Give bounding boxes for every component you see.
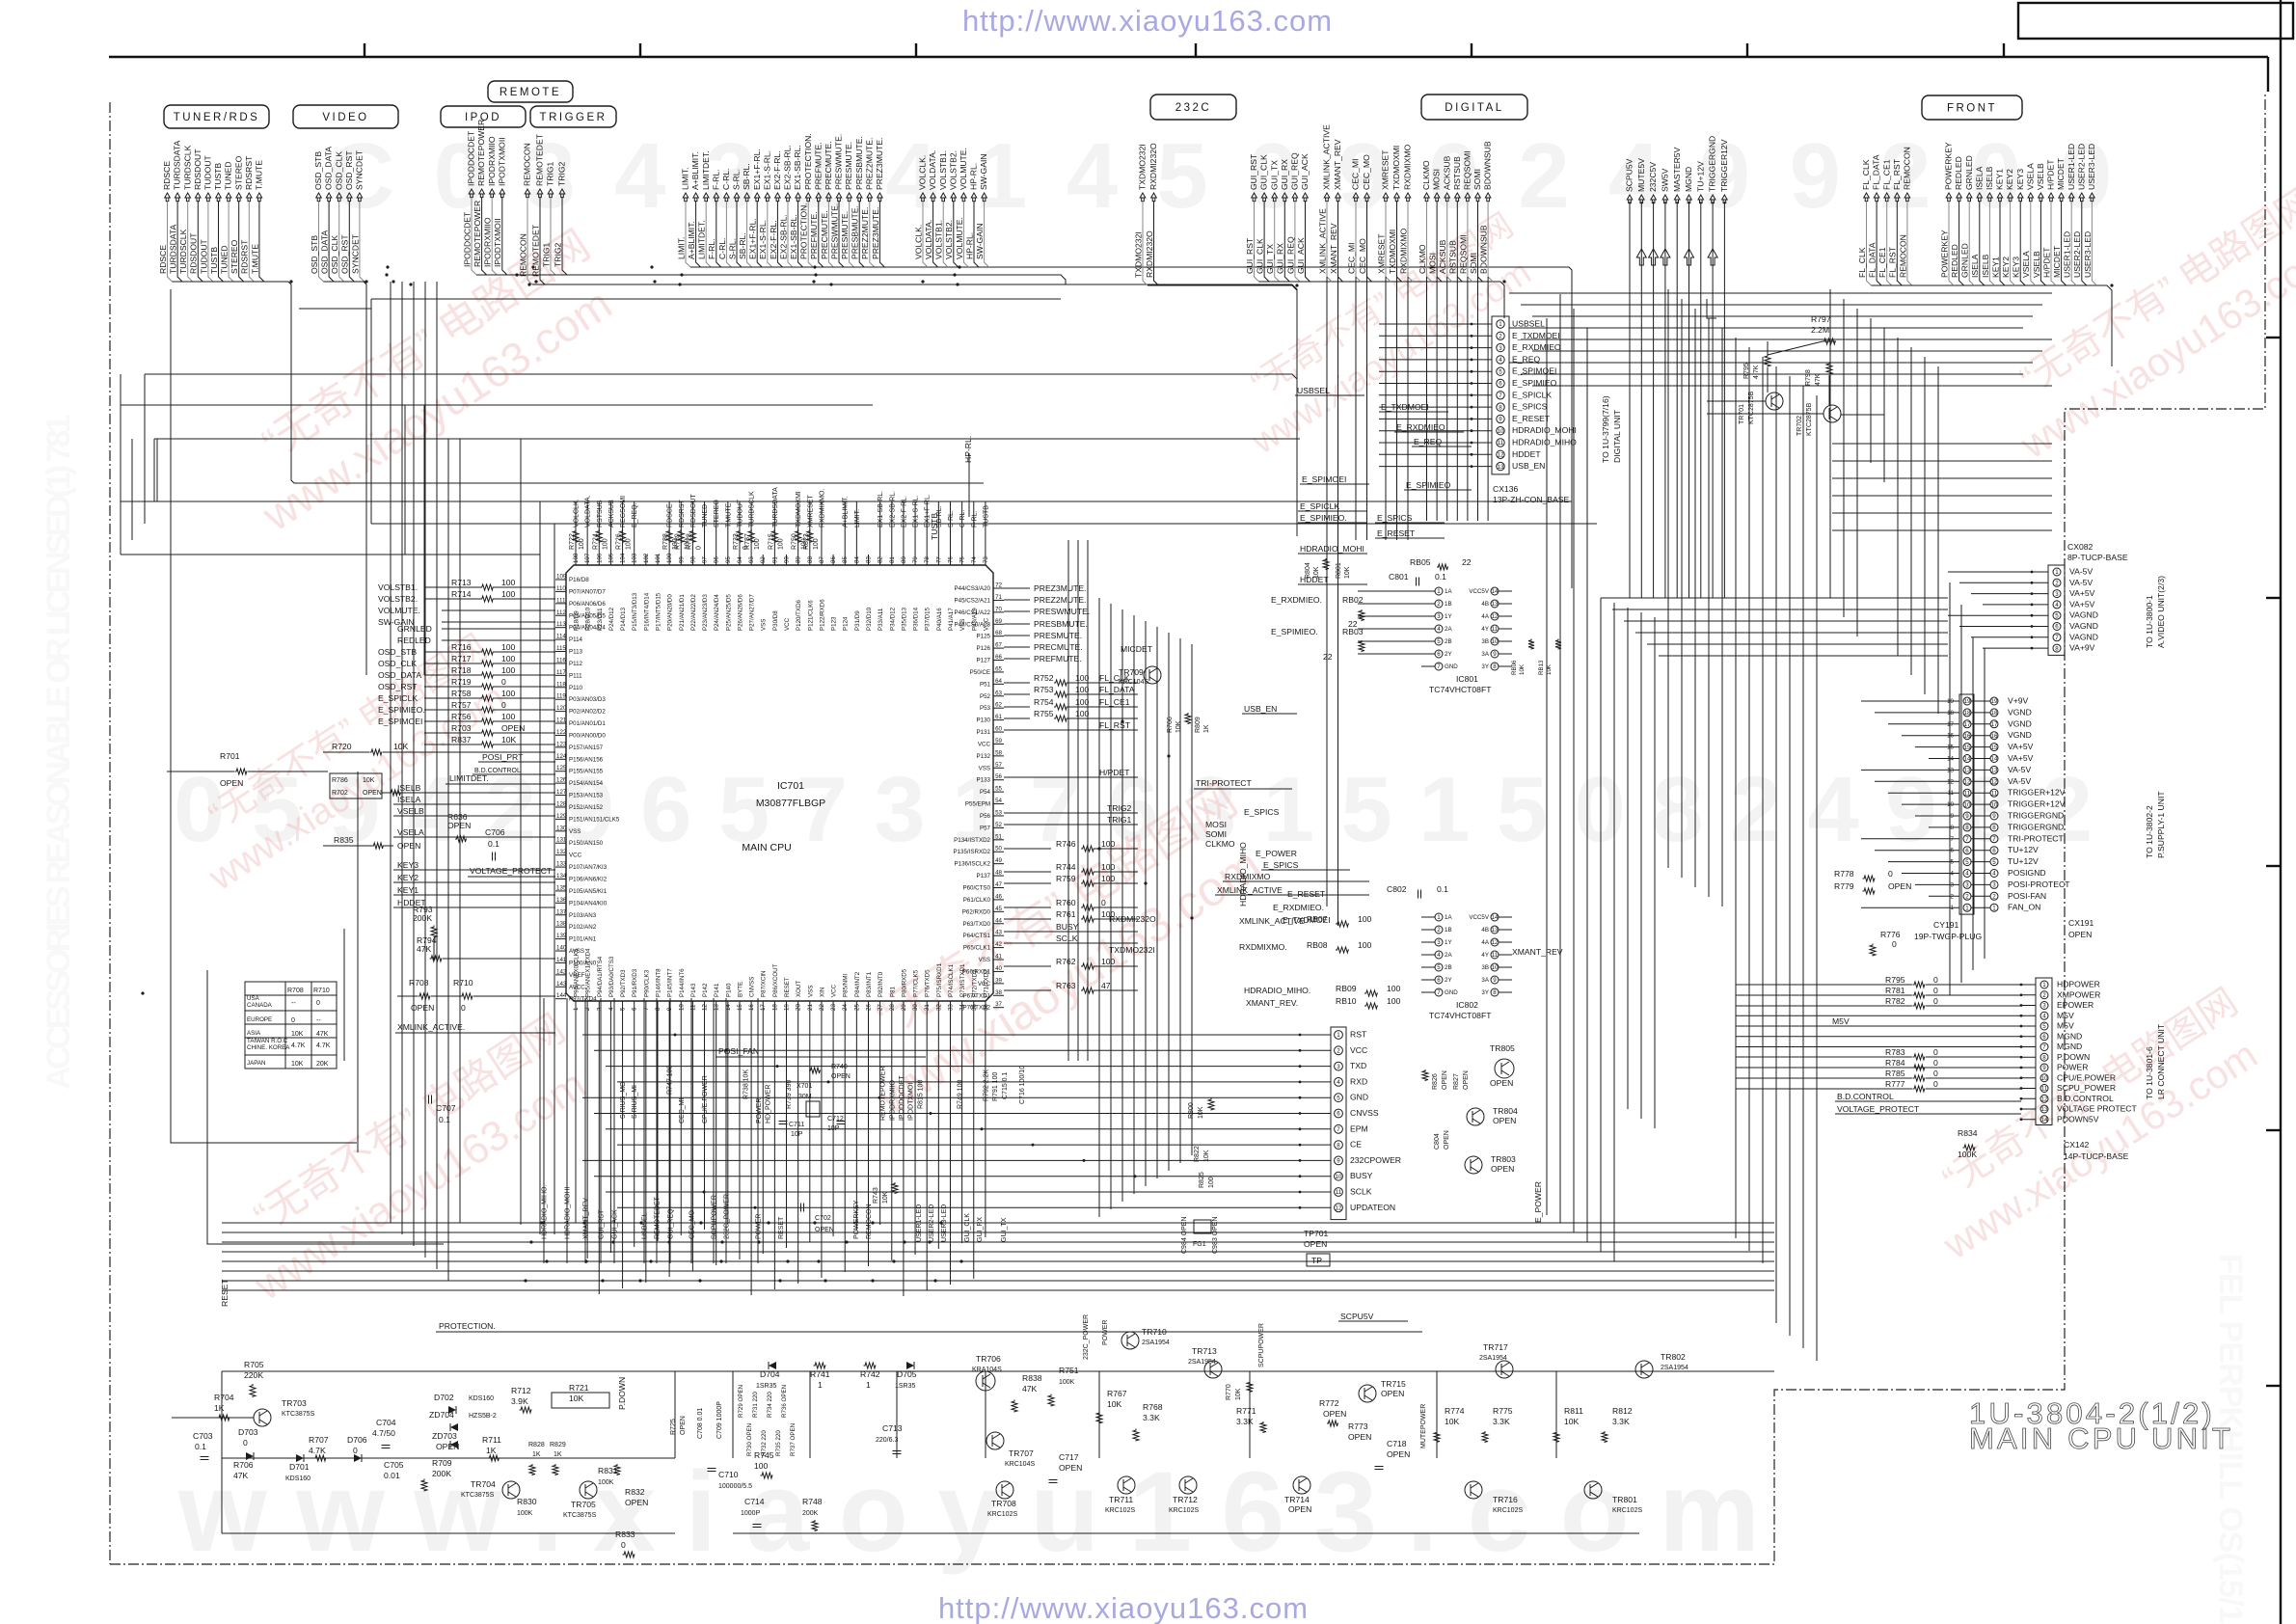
svg-text:SOMI: SOMI <box>1469 253 1478 274</box>
svg-text:P24/AN24/D4: P24/AN24/D4 <box>714 594 720 631</box>
svg-text:D706: D706 <box>347 1435 367 1445</box>
svg-text:3.3K: 3.3K <box>1612 1417 1630 1426</box>
wires 12p connector into bus <box>582 1034 1300 1036</box>
svg-text:P81: P81 <box>889 986 896 997</box>
svg-text:47K: 47K <box>1022 1384 1038 1394</box>
svg-text:P47/CS0/A23: P47/CS0/A23 <box>955 621 991 628</box>
svg-text:E_TXDMOEI: E_TXDMOEI <box>1512 331 1560 340</box>
svg-text:P135/ISRXD2: P135/ISRXD2 <box>953 849 990 855</box>
svg-text:PREFMUTE.: PREFMUTE. <box>809 211 819 259</box>
svg-text:EX1+F-RL.: EX1+F-RL. <box>752 149 762 190</box>
svg-text:19P-TWGP-PLUG: 19P-TWGP-PLUG <box>1914 932 1983 941</box>
svg-text:10: 10 <box>1991 801 1998 808</box>
wire 232c bus route <box>1148 285 1297 405</box>
svg-text:RB05: RB05 <box>1410 557 1431 567</box>
svg-text:R750: R750 <box>792 533 798 550</box>
svg-text:R763: R763 <box>1056 981 1076 990</box>
svg-text:15: 15 <box>1964 744 1971 751</box>
svg-text:R798: R798 <box>1805 369 1812 386</box>
svg-text:P36/D14: P36/D14 <box>913 607 920 631</box>
svg-text:USB_EN: USB_EN <box>1244 704 1277 714</box>
svg-text:3.3K: 3.3K <box>1493 1417 1510 1426</box>
svg-text:TUNER/RDS: TUNER/RDS <box>174 112 260 123</box>
svg-text:R835: R835 <box>334 835 354 845</box>
svg-text:3Y: 3Y <box>1481 989 1489 996</box>
svg-text:PRESMUTE.: PRESMUTE. <box>840 211 850 259</box>
svg-text:RB13: RB13 <box>1538 660 1545 675</box>
svg-text:E_SPICS: E_SPICS <box>1263 860 1299 870</box>
svg-text:12: 12 <box>1964 779 1971 786</box>
transistors TR711 TR712 KRC102S <box>1118 1476 1135 1494</box>
svg-text:GRNLED: GRNLED <box>1960 243 1970 278</box>
svg-text:TR702: TR702 <box>1796 416 1803 436</box>
svg-text:PREZ2MUTE.: PREZ2MUTE. <box>860 207 870 259</box>
svg-text:KEY3: KEY3 <box>2015 169 2025 190</box>
svg-text:C-RL.: C-RL. <box>721 169 731 190</box>
wire long bus H <box>121 554 540 555</box>
svg-text:0.1: 0.1 <box>1437 884 1448 894</box>
svg-text:GUI_ACK: GUI_ACK <box>1296 237 1306 274</box>
svg-text:ASIA: ASIA <box>247 1030 261 1037</box>
svg-text:0: 0 <box>501 700 506 710</box>
svg-text:34: 34 <box>959 1004 966 1011</box>
svg-text:C710: C710 <box>718 1470 739 1479</box>
svg-text:55: 55 <box>995 786 1002 793</box>
header box FRONT <box>1922 95 2022 120</box>
svg-text:P23/AN23/D3: P23/AN23/D3 <box>702 594 709 631</box>
svg-text:12: 12 <box>1991 779 1998 786</box>
svg-text:D701: D701 <box>289 1462 310 1472</box>
transistor TR701 KTC2875B <box>1766 392 1783 410</box>
svg-text:8: 8 <box>2055 645 2059 652</box>
svg-text:R733: R733 <box>733 533 740 550</box>
svg-text:0: 0 <box>1933 986 1938 995</box>
svg-text:CANADA: CANADA <box>247 1002 273 1009</box>
svg-text:50: 50 <box>995 846 1002 853</box>
svg-text:17: 17 <box>1991 721 1998 728</box>
svg-text:P40/A16: P40/A16 <box>936 608 943 631</box>
svg-text:KEY2: KEY2 <box>2001 257 2011 278</box>
transistor TR804 OPEN <box>1467 1108 1484 1125</box>
svg-text:92: 92 <box>760 556 767 563</box>
svg-text:XMLINK_ACTIVE: XMLINK_ACTIVE <box>1217 885 1283 895</box>
svg-text:C709 1000P: C709 1000P <box>716 1401 723 1439</box>
svg-text:E_RESET: E_RESET <box>1512 414 1551 423</box>
svg-text:KTC3875S: KTC3875S <box>563 1512 597 1519</box>
svg-text:P123: P123 <box>831 616 838 631</box>
svg-text:66: 66 <box>995 654 1002 661</box>
svg-text:18: 18 <box>771 1004 778 1011</box>
svg-text:P101/AN1: P101/AN1 <box>569 936 597 943</box>
svg-text:P25/AN25/D5: P25/AN25/D5 <box>725 594 732 631</box>
svg-text:100: 100 <box>1101 839 1116 849</box>
svg-text:C703: C703 <box>193 1431 213 1441</box>
svg-text:61: 61 <box>995 714 1002 720</box>
svg-text:TU+12V: TU+12V <box>2008 845 2039 854</box>
svg-text:P50/CE: P50/CE <box>970 669 990 676</box>
svg-text:6: 6 <box>1499 381 1502 388</box>
svg-text:OPEN: OPEN <box>1348 1432 1371 1442</box>
signal group POWER rails <box>1627 195 1633 203</box>
svg-text:141: 141 <box>556 957 567 963</box>
svg-text:HZS5B-2: HZS5B-2 <box>469 1413 497 1420</box>
svg-text:100: 100 <box>1075 673 1090 683</box>
svg-text:VSELB: VSELB <box>397 806 424 816</box>
svg-text:KRC102S: KRC102S <box>1105 1507 1135 1514</box>
svg-text:R749 100: R749 100 <box>958 1080 964 1109</box>
svg-text:130: 130 <box>556 825 567 831</box>
svg-text:5: 5 <box>1437 964 1441 971</box>
ic IC802 TC74VHCT08FT <box>1435 913 1443 921</box>
svg-text:R745: R745 <box>754 1450 774 1460</box>
wire staircase verticals joining CX082 and CY191 <box>1949 582 1951 995</box>
svg-text:51: 51 <box>995 833 1002 840</box>
transistor TR704 KTC3875S <box>502 1481 520 1499</box>
net FL_RST <box>1004 729 1138 731</box>
svg-text:6: 6 <box>632 1007 638 1011</box>
svg-text:E_SPICS: E_SPICS <box>1244 807 1280 817</box>
svg-text:VCC: VCC <box>1350 1045 1367 1055</box>
svg-text:R708: R708 <box>287 988 304 994</box>
svg-text:P134/ISTXD2: P134/ISTXD2 <box>954 837 990 844</box>
svg-text:PRESWMUTE.: PRESWMUTE. <box>829 203 839 259</box>
svg-text:KDS160: KDS160 <box>285 1475 311 1482</box>
table region resistor options <box>245 982 337 1069</box>
signal group MOSI <box>1424 193 1430 202</box>
svg-text:TXDMO232I: TXDMO232I <box>1109 945 1155 955</box>
wire bottom long rail 2 <box>733 1532 1639 1534</box>
svg-text:P26/AN26/D6: P26/AN26/D6 <box>737 594 743 631</box>
svg-text:FL_DATA: FL_DATA <box>1872 154 1881 190</box>
svg-text:1: 1 <box>866 1380 871 1390</box>
header box IPOD <box>441 106 526 127</box>
svg-text:3A: 3A <box>1481 651 1489 658</box>
svg-text:KEY1: KEY1 <box>397 885 419 895</box>
svg-text:R822: R822 <box>1194 1146 1201 1162</box>
signal group GUI <box>1252 193 1257 202</box>
svg-text:R724: R724 <box>592 533 599 550</box>
svg-text:121: 121 <box>556 717 567 724</box>
svg-text:T.MUTE: T.MUTE <box>250 244 259 274</box>
svg-text:POWER: POWER <box>2057 1063 2088 1072</box>
svg-text:138: 138 <box>556 921 567 928</box>
svg-text:KRA104S: KRA104S <box>972 1367 1002 1373</box>
transistor TR707 KRC104S <box>986 1432 1004 1449</box>
svg-text:0: 0 <box>353 1446 358 1455</box>
svg-text:100: 100 <box>501 712 516 721</box>
svg-text:9: 9 <box>2042 1065 2046 1071</box>
cpu right FL resistor rows <box>1004 682 1030 684</box>
svg-text:GUI_ACK: GUI_ACK <box>612 1209 619 1239</box>
svg-text:136: 136 <box>556 897 567 904</box>
svg-text:47K: 47K <box>316 1031 329 1038</box>
svg-text:R777: R777 <box>1885 1079 1905 1089</box>
wire tuner bus route <box>264 282 984 483</box>
svg-text:6: 6 <box>1437 977 1441 984</box>
svg-text:10K: 10K <box>291 1031 304 1038</box>
svg-text:R752: R752 <box>1034 673 1054 683</box>
svg-text:P121/CLK6: P121/CLK6 <box>807 600 814 631</box>
svg-text:3: 3 <box>1965 882 1969 889</box>
svg-text:E_SPICS: E_SPICS <box>1512 402 1548 412</box>
svg-text:REGSOMI: REGSOMI <box>620 496 627 528</box>
svg-text:VSS: VSS <box>761 619 768 631</box>
svg-text:MOSI: MOSI <box>1428 253 1438 274</box>
svg-text:TURDSCLK: TURDSCLK <box>182 145 192 190</box>
svg-text:100K: 100K <box>598 1479 614 1486</box>
svg-text:OSD_CLK: OSD_CLK <box>378 659 417 668</box>
svg-text:CX082: CX082 <box>2067 542 2093 552</box>
svg-text:15: 15 <box>737 1004 743 1011</box>
wire left column box <box>171 289 357 1143</box>
svg-text:5: 5 <box>1499 368 1502 375</box>
svg-text:76: 76 <box>947 556 954 563</box>
svg-text:REMOTE: REMOTE <box>500 87 561 98</box>
svg-text:RDSRST: RDSRST <box>240 239 250 274</box>
svg-text:P56: P56 <box>980 813 991 820</box>
svg-text:SYNCDET: SYNCDET <box>355 149 365 190</box>
wire long bus E <box>154 438 1300 440</box>
signal group TRIGGER <box>548 189 554 198</box>
svg-text:C707: C707 <box>436 1103 456 1113</box>
svg-text:USB_EN: USB_EN <box>1512 461 1545 471</box>
svg-text:41: 41 <box>995 954 1002 961</box>
svg-text:0: 0 <box>461 1003 466 1013</box>
svg-text:28: 28 <box>889 1004 896 1011</box>
svg-text:CEC_MI: CEC_MI <box>1351 159 1361 190</box>
cpu left pins column (pins 109-144) <box>555 579 566 581</box>
svg-text:200K: 200K <box>432 1469 451 1478</box>
svg-text:VSS: VSS <box>569 828 581 835</box>
svg-text:1A: 1A <box>1445 588 1452 595</box>
svg-text:GUI_TX: GUI_TX <box>1265 244 1275 274</box>
svg-text:P146/INT8: P146/INT8 <box>655 968 662 997</box>
svg-text:18: 18 <box>1991 710 1998 717</box>
svg-text:R834: R834 <box>1958 1128 1978 1138</box>
svg-text:P87/XCIN: P87/XCIN <box>761 970 768 997</box>
svg-text:P46/CS1/A22: P46/CS1/A22 <box>955 609 991 616</box>
svg-text:KTC2875B: KTC2875B <box>1748 391 1755 424</box>
svg-text:R770: R770 <box>1226 1384 1232 1400</box>
svg-text:TUSTB: TUSTB <box>983 505 989 528</box>
svg-text:P35/D13: P35/D13 <box>901 607 907 631</box>
svg-text:VGND: VGND <box>2008 707 2032 717</box>
svg-text:P33/A11: P33/A11 <box>878 608 884 631</box>
svg-text:ISELB: ISELB <box>397 783 421 793</box>
svg-text:R743: R743 <box>873 1187 879 1204</box>
svg-text:5: 5 <box>2042 1023 2046 1030</box>
svg-text:E_SPICS: E_SPICS <box>1377 513 1413 523</box>
svg-text:HP-RL.: HP-RL. <box>964 232 974 259</box>
svg-text:ISELA: ISELA <box>1970 254 1980 278</box>
svg-text:REMOTEDET: REMOTEDET <box>535 133 545 186</box>
svg-text:C706: C706 <box>485 827 505 837</box>
svg-text:12: 12 <box>1492 939 1499 946</box>
svg-text:75: 75 <box>959 556 966 563</box>
svg-text:POSI-PROTECT: POSI-PROTECT <box>2008 880 2070 889</box>
svg-text:10K: 10K <box>1107 1399 1122 1409</box>
svg-text:P125: P125 <box>977 634 991 640</box>
wires to CX142 left <box>1736 1015 2021 1016</box>
svg-text:39: 39 <box>995 977 1002 984</box>
svg-text:RXD: RXD <box>1350 1076 1367 1086</box>
svg-text:TRIGGERGND: TRIGGERGND <box>2008 811 2064 821</box>
svg-text:CLKMO: CLKMO <box>1205 839 1235 849</box>
wire long bus G <box>371 523 1597 525</box>
svg-text:TURDSDATA: TURDSDATA <box>169 224 178 274</box>
svg-text:E_SPIMIEO.: E_SPIMIEO. <box>1300 513 1347 523</box>
svg-text:11: 11 <box>1492 626 1499 633</box>
wire ladder middle right verticals <box>1546 318 1548 1215</box>
svg-text:4Y: 4Y <box>1481 952 1489 959</box>
svg-text:LIMITDET.: LIMITDET. <box>697 220 707 259</box>
nets TRIG2 TRIG1 <box>1004 812 1138 814</box>
svg-text:R760: R760 <box>1056 898 1076 907</box>
svg-text:R710: R710 <box>313 988 330 994</box>
svg-text:TR801: TR801 <box>1612 1495 1637 1504</box>
svg-text:P20/AN20/D0: P20/AN20/D0 <box>667 594 674 631</box>
svg-text:3A: 3A <box>1481 977 1489 984</box>
svg-text:109: 109 <box>556 574 567 581</box>
svg-text:EX2-F-RL.: EX2-F-RL. <box>769 220 778 259</box>
connector CX142 14P-TUCP-BASE <box>2036 978 2052 1125</box>
signal group CEC <box>1353 193 1359 202</box>
svg-text:R785: R785 <box>1885 1069 1905 1078</box>
svg-text:P55/EPM: P55/EPM <box>965 801 990 808</box>
label column left of below-comb <box>543 998 545 1263</box>
svg-text:LR CONNECT UNIT: LR CONNECT UNIT <box>2156 1023 2166 1099</box>
svg-text:0: 0 <box>695 546 702 550</box>
svg-text:P05/AN05/D5: P05/AN05/D5 <box>569 612 606 619</box>
svg-text:2: 2 <box>1337 1048 1340 1055</box>
svg-text:20K: 20K <box>316 1061 329 1068</box>
svg-text:VOLSTB1.: VOLSTB1. <box>938 150 948 190</box>
svg-text:100: 100 <box>1101 874 1116 883</box>
svg-text:100K: 100K <box>1059 1379 1075 1386</box>
svg-text:ACCESSORIES REASONABLE OR LICE: ACCESSORIES REASONABLE OR LICENSED(1) 78… <box>41 415 77 1090</box>
svg-text:TR704: TR704 <box>471 1479 496 1489</box>
svg-text:68: 68 <box>995 630 1002 636</box>
header box VIDEO <box>293 105 398 128</box>
svg-text:4: 4 <box>1499 357 1502 364</box>
svg-text:VOLTAGE PROTECT: VOLTAGE PROTECT <box>2057 1104 2138 1114</box>
svg-text:USBSEL: USBSEL <box>1512 319 1545 329</box>
svg-text:VOLSTB1.: VOLSTB1. <box>378 582 418 592</box>
svg-text:R788: R788 <box>662 533 669 550</box>
svg-text:40: 40 <box>995 965 1002 972</box>
pink watermark 4 <box>1218 206 1547 462</box>
svg-text:R704: R704 <box>214 1393 234 1402</box>
svg-text:PRESBMUTE.: PRESBMUTE. <box>1034 619 1088 629</box>
svg-text:HDRADIO_MIHO: HDRADIO_MIHO <box>1512 438 1577 447</box>
wire fl bus route <box>1872 285 2113 366</box>
svg-text:P114: P114 <box>569 636 583 643</box>
svg-text:7: 7 <box>1437 663 1441 670</box>
svg-text:KEY1: KEY1 <box>1995 169 2005 190</box>
svg-text:RESET: RESET <box>784 977 791 997</box>
svg-text:VCC: VCC <box>569 853 582 859</box>
svg-text:2: 2 <box>1499 334 1502 340</box>
svg-text:BDOWNSUB: BDOWNSUB <box>1479 225 1489 274</box>
svg-text:RXDMIXMO: RXDMIXMO <box>1403 144 1413 190</box>
svg-text:5: 5 <box>1992 859 1996 866</box>
svg-text:P52: P52 <box>980 693 991 700</box>
svg-text:REMOTEPOWER: REMOTEPOWER <box>880 1067 887 1121</box>
svg-text:RSTSUB: RSTSUB <box>1452 156 1462 190</box>
svg-text:TRIGGER: TRIGGER <box>540 112 608 123</box>
svg-text:R823: R823 <box>803 533 810 550</box>
svg-text:8: 8 <box>1965 825 1969 831</box>
cpu right side nets and resistors <box>1004 587 1030 589</box>
svg-text:TR705: TR705 <box>571 1500 596 1509</box>
svg-text:POWERKEY: POWERKEY <box>1944 142 1954 190</box>
svg-text:10K: 10K <box>1445 1417 1460 1426</box>
svg-text:R804: R804 <box>1305 562 1311 579</box>
svg-text:PREFMUTE.: PREFMUTE. <box>813 142 823 190</box>
svg-text:8: 8 <box>1499 404 1502 411</box>
svg-text:P84/INT2: P84/INT2 <box>854 971 861 997</box>
transistor TR708 KRC102S <box>996 1481 1013 1499</box>
svg-text:R791 100: R791 100 <box>992 1072 999 1101</box>
svg-text:14: 14 <box>1492 588 1499 595</box>
svg-text:CPU/E.POWER: CPU/E.POWER <box>702 1075 709 1123</box>
svg-text:93: 93 <box>748 556 755 563</box>
svg-text:R726: R726 <box>616 533 623 550</box>
header box 232C <box>1150 95 1236 120</box>
svg-text:PREZ2MUTE.: PREZ2MUTE. <box>864 138 874 190</box>
svg-text:TR714: TR714 <box>1284 1495 1310 1504</box>
svg-text:IPODDOCDET: IPODDOCDET <box>467 130 476 186</box>
svg-text:GND: GND <box>1350 1093 1368 1102</box>
svg-text:ZD703: ZD703 <box>432 1431 457 1441</box>
svg-text:TO 1U-3802-2: TO 1U-3802-2 <box>2145 805 2154 858</box>
svg-text:4A: 4A <box>1481 939 1489 946</box>
svg-text:P105/AN5/KI1: P105/AN5/KI1 <box>569 888 608 895</box>
svg-text:OPEN: OPEN <box>1491 1164 1514 1174</box>
svg-text:OPEN: OPEN <box>625 1498 648 1507</box>
svg-text:3.3K: 3.3K <box>1143 1413 1160 1422</box>
svg-text:3.3K: 3.3K <box>1236 1417 1254 1426</box>
svg-text:122: 122 <box>556 729 567 736</box>
wires staircase to CY191 <box>1861 700 1959 702</box>
svg-text:R801: R801 <box>1336 562 1342 579</box>
svg-text:P07/AN07/D7: P07/AN07/D7 <box>569 588 606 595</box>
svg-text:ISELA: ISELA <box>1974 166 1984 190</box>
off-page arrow 232C5V <box>1649 249 1659 265</box>
svg-text:OPEN: OPEN <box>1442 1070 1448 1090</box>
svg-text:RDSRST: RDSRST <box>244 155 254 190</box>
svg-text:VOLSTB1.: VOLSTB1. <box>934 220 944 259</box>
header box REMOTE <box>488 81 573 102</box>
svg-text:6: 6 <box>1965 848 1969 854</box>
svg-text:99: 99 <box>678 556 685 563</box>
svg-text:R812: R812 <box>1612 1406 1633 1416</box>
svg-text:200K: 200K <box>802 1510 819 1517</box>
svg-text:VA+9V: VA+9V <box>2069 643 2095 653</box>
svg-text:1: 1 <box>573 1007 580 1011</box>
svg-text:GUI_RX: GUI_RX <box>1280 159 1289 190</box>
svg-text:P.SUPPLY-1 UNIT: P.SUPPLY-1 UNIT <box>2156 791 2166 858</box>
transistor TR717 2SA1954 <box>1496 1361 1513 1378</box>
svg-text:C704: C704 <box>376 1418 396 1427</box>
svg-text:XMLINK_ACTIVE: XMLINK_ACTIVE <box>1317 208 1327 274</box>
svg-text:P83/INT1: P83/INT1 <box>866 971 873 997</box>
svg-text:7: 7 <box>2055 635 2059 641</box>
svg-text:RXDMI232O: RXDMI232O <box>1109 914 1156 924</box>
svg-text:2: 2 <box>2042 992 2046 999</box>
svg-text:56: 56 <box>995 773 1002 780</box>
svg-text:GUI_REQ: GUI_REQ <box>1285 236 1295 274</box>
